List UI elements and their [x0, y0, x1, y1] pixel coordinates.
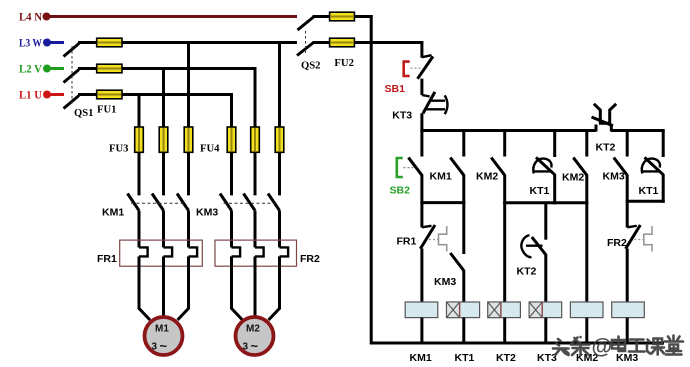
svg-text:KT1: KT1: [639, 185, 659, 197]
button SB2 blade: [408, 158, 422, 176]
wire bottom bus: [371, 342, 664, 345]
contact KM2 aux label (B3): [476, 171, 498, 183]
wire U phase bus: [122, 93, 233, 96]
contact KM1 aux label: [430, 171, 452, 183]
coil KM3 label: [616, 352, 638, 364]
thermal relay FR1 box: [120, 240, 203, 266]
node L2 V label: [19, 64, 43, 76]
coil KT2 with clutch square: [488, 302, 521, 318]
svg-text:SB1: SB1: [385, 83, 406, 95]
svg-text:FU2: FU2: [334, 57, 354, 69]
fuse FU2 pole N: [330, 12, 355, 21]
wire KT3 to control bus: [420, 113, 423, 132]
coil KT3 label: [537, 352, 557, 364]
wire branch4 lower: [230, 211, 233, 248]
svg-text:FR2: FR2: [300, 253, 320, 265]
wire coil KT3 to bottom bus: [544, 318, 547, 345]
svg-text:FR2: FR2: [607, 237, 627, 249]
thermal relay FR1 heater 3: [189, 247, 198, 256]
relay contact KT3 label: [392, 110, 412, 122]
wire branch B7 upper: [662, 131, 665, 158]
node L2 V terminal dot: [43, 65, 51, 73]
wire branch B4 upper: [553, 131, 556, 158]
switch QS2 blade pole W: [297, 43, 314, 56]
wire branch B3 to coil KT2: [503, 175, 506, 304]
switch QS1 blade pole U: [64, 96, 80, 109]
wire branch B4 to H2: [553, 174, 556, 204]
button SB1 actuator dotted link: [411, 67, 421, 69]
thermal relay FR1 label: [97, 253, 117, 265]
thermal relay FR2 label: [300, 253, 320, 265]
wire coil KM3 to bottom bus: [626, 318, 629, 345]
thermal relay FR2 heater 2: [255, 247, 264, 256]
wire coil KM1 to bottom bus: [420, 318, 423, 345]
button SB1 label: [385, 83, 406, 95]
thermal contact FR2 blade: [626, 225, 641, 249]
switch QS1 blade pole W: [64, 44, 80, 57]
svg-text:KT3: KT3: [392, 110, 412, 122]
wire motor branch 5 drop (V): [254, 69, 257, 196]
thermal relay FR2 box: [215, 240, 297, 266]
fuse FU1 label: [97, 104, 117, 116]
relay contact KT1 label (B4): [530, 185, 550, 197]
wire branch5 lower: [254, 211, 257, 248]
svg-text:FU4: FU4: [200, 143, 220, 155]
contact KM2 aux blade (B5): [573, 158, 587, 176]
wire coil KM2 to bottom bus: [585, 318, 588, 345]
coil KM1: [405, 302, 438, 318]
wire L2 stub: [49, 67, 64, 70]
node L1 U terminal dot: [43, 91, 51, 99]
wire junction H3 (B6-B7 link): [626, 200, 665, 203]
wire motor branch 2 drop (V): [162, 69, 165, 196]
wire branch B5 upper: [585, 131, 588, 157]
wire branch6 lower: [278, 211, 281, 248]
wire branch B6 upper: [626, 131, 629, 157]
relay contact KT1 label (B7): [639, 185, 659, 197]
thermal relay FR1 heater 2: [164, 247, 173, 256]
wire motor M1 lead right: [178, 256, 189, 320]
svg-text:@: @: [592, 336, 612, 359]
svg-text:KT1: KT1: [530, 185, 550, 197]
thermal contact FR2 dotted link: [634, 239, 643, 241]
node L3 W label: [19, 38, 42, 50]
button SB2 label: [390, 185, 411, 197]
thermal relay FR1 heater 1: [139, 247, 148, 256]
svg-text:~: ~: [251, 339, 259, 354]
fuse FU1 pole U: [97, 90, 122, 99]
relay contact KT1 delay mark (B4): [533, 159, 551, 174]
wire motor M1 lead mid: [162, 256, 165, 316]
button SB1 actuator: [404, 62, 410, 76]
wire motor branch 3 drop (W): [187, 43, 190, 196]
contactor KM3 label: [196, 207, 218, 219]
fuse FU3 pole 1: [135, 127, 144, 152]
svg-text:QS2: QS2: [301, 60, 321, 72]
switch QS2 blade pole N: [298, 17, 314, 30]
wire control feed vertical upper: [420, 43, 423, 58]
wire motor M1 lead left: [139, 256, 150, 320]
svg-text:SB2: SB2: [390, 185, 411, 197]
relay contact KT3 delay mark: [425, 95, 448, 114]
thermal contact FR1 element: [439, 226, 447, 252]
svg-text:KM2: KM2: [562, 172, 584, 184]
fuse FU2 pole W: [330, 38, 355, 47]
svg-text:KT2: KT2: [596, 142, 616, 154]
wire junction H1 (B1-B2 parallel link): [420, 201, 465, 204]
button SB2 actuator dotted link: [404, 167, 414, 169]
contactor KM3 main contact 3: [268, 194, 280, 211]
wire U phase to FU1: [78, 93, 97, 96]
fuse FU1 pole V: [97, 64, 122, 73]
relay contact KT3 NC delayed seat tick: [422, 95, 430, 96]
thermal relay FR2 heater 1: [232, 247, 241, 256]
wire branch B1 to coil KM1: [420, 249, 423, 304]
thermal contact FR1 label: [397, 236, 417, 248]
relay contact KT1 delayed NO blade (B7): [645, 157, 664, 174]
wire control bus left segment: [420, 129, 596, 132]
svg-text:3: 3: [243, 342, 249, 353]
svg-text:FR1: FR1: [397, 236, 417, 248]
contactor KM1 label: [102, 207, 124, 219]
wire N rail vertical: [370, 15, 373, 345]
svg-text:L2 V: L2 V: [19, 64, 43, 76]
fuse FU4 label: [200, 143, 220, 155]
fuse FU1 pole W: [97, 38, 122, 47]
wire motor branch 6 drop (W): [278, 43, 281, 196]
thermal contact FR2 seat tick: [627, 226, 637, 228]
relay contact KT2 delayed NO blade (B4b): [532, 237, 546, 255]
fuse FU4 pole 3: [275, 127, 284, 152]
coil KT1 label: [455, 352, 475, 364]
thermal contact FR1 dotted link: [429, 239, 438, 241]
svg-text:QS1: QS1: [74, 107, 94, 119]
wire W phase bus to QS2: [122, 41, 297, 44]
contact KM2 aux label (B5): [562, 172, 584, 184]
contact KM3 aux label: [434, 276, 456, 288]
wire motor M2 lead mid: [254, 256, 257, 316]
wire branch3 lower: [187, 211, 190, 248]
button SB2 actuator: [397, 158, 403, 177]
wire coil KT1 to bottom bus: [462, 318, 465, 345]
wire SB1 to KT3: [420, 79, 423, 95]
relay contact KT2 label (B4b): [517, 266, 537, 278]
wire branch B4b hang from H2: [544, 203, 547, 240]
wire FU2 top to N rail: [354, 15, 372, 18]
wire V phase to FU1: [78, 67, 97, 70]
relay contact KT2 delay mark (B4b): [521, 235, 542, 257]
wire branch B1 to FR1 contact: [420, 175, 423, 228]
svg-text:KT2: KT2: [517, 266, 537, 278]
wire branch B2 upper: [462, 131, 465, 157]
wire L4 neutral top line: [49, 15, 297, 18]
svg-text:KM3: KM3: [434, 276, 456, 288]
wire branch B2 middle: [462, 175, 465, 255]
node L3 W terminal dot: [43, 39, 51, 47]
svg-text:KM1: KM1: [430, 171, 452, 183]
relay contact KT2 in-bus label: [596, 142, 616, 154]
contactor KM3 main contact 2: [244, 194, 256, 211]
contactor KM3 linkage dashed: [224, 202, 276, 204]
wire branch B6 to coil KM3: [626, 249, 629, 304]
contactor KM1 main contact 3: [177, 194, 189, 211]
svg-text:L3 W: L3 W: [19, 38, 42, 50]
wire V phase bus: [122, 67, 257, 70]
svg-text:KT1: KT1: [455, 352, 475, 364]
button SB1 blade: [418, 56, 434, 78]
switch QS1 blade pole V: [64, 70, 80, 83]
wire branch2 lower: [162, 211, 165, 248]
contactor KM3 main contact 1: [220, 194, 232, 211]
wire junction H2 (B3-B4-B5 link): [503, 201, 588, 204]
wire branch B5 to coil KM2: [585, 175, 588, 304]
wire branch B6 middle: [626, 175, 629, 228]
coil KT3 with clutch square: [529, 302, 562, 318]
contactor KM1 linkage dashed: [131, 202, 184, 204]
svg-text:3: 3: [152, 342, 158, 353]
wire L1 stub: [49, 93, 64, 96]
wire branch1 lower: [138, 211, 141, 248]
thermal contact FR2 label: [607, 237, 627, 249]
fuse FU2 label: [334, 57, 354, 69]
svg-text:KT2: KT2: [496, 352, 516, 364]
fuse FU3 pole 3: [184, 127, 193, 152]
node L4 N terminal dot: [43, 13, 51, 21]
svg-text:L4 N: L4 N: [19, 12, 43, 24]
wire branch B4b to coil KT3: [544, 254, 547, 303]
thermal contact FR1 blade: [420, 225, 435, 249]
contact KM3 aux label (B6): [603, 171, 625, 183]
coil KM2: [570, 302, 603, 318]
thermal relay FR2 heater 3: [280, 247, 289, 256]
wire coil KT2 to bottom bus: [503, 318, 506, 345]
svg-text:M1: M1: [155, 324, 169, 335]
fuse FU3 pole 2: [159, 127, 168, 152]
switch QS2 label: [301, 60, 321, 72]
node L1 U label: [19, 90, 43, 102]
contact KM3 aux blade: [450, 253, 464, 271]
fuse FU4 pole 2: [251, 127, 260, 152]
relay contact KT1 delay mark (B7): [642, 159, 660, 174]
wire motor M2 lead right: [269, 256, 280, 320]
svg-text:KM1: KM1: [102, 207, 124, 219]
coil KT1 with clutch square: [447, 302, 480, 318]
switch QS1 linkage dotted: [71, 46, 73, 106]
coil KM1 label: [410, 352, 432, 364]
wire branch B7 to H3: [662, 174, 665, 203]
fuse FU4 pole 1: [227, 127, 236, 152]
motor M1: [145, 317, 183, 355]
wire W phase to FU1: [78, 41, 97, 44]
coil KM3: [612, 302, 645, 318]
motor M2: [236, 317, 274, 355]
wire FU2 bottom to control branch: [354, 41, 423, 44]
coil KT2 label: [496, 352, 516, 364]
svg-text:KM3: KM3: [603, 171, 625, 183]
wire QS2 to FU2 top: [313, 15, 330, 18]
wire motor M2 lead left: [232, 256, 243, 320]
svg-text:KT3: KT3: [537, 352, 557, 364]
svg-text:L1 U: L1 U: [19, 90, 43, 102]
svg-text:KM2: KM2: [476, 171, 498, 183]
wire motor branch 4 drop (U): [230, 95, 233, 196]
svg-text:KM3: KM3: [196, 207, 218, 219]
svg-text:M2: M2: [246, 324, 260, 335]
svg-text:~: ~: [160, 339, 168, 354]
wire branch B1 upper: [420, 131, 423, 157]
svg-text:KM3: KM3: [616, 352, 638, 364]
wire L3 stub: [49, 41, 64, 44]
svg-text:FU3: FU3: [109, 143, 129, 155]
coil KM2 label: [576, 352, 598, 364]
wire branch B2 to coil KT1: [462, 270, 465, 303]
switch QS1 label: [74, 107, 94, 119]
relay contact KT3 blade: [423, 92, 435, 114]
svg-text:KM1: KM1: [410, 352, 432, 364]
thermal contact FR2 element: [644, 226, 652, 252]
fuse FU3 label: [109, 143, 129, 155]
relay contact KT1 delayed NO blade (B4): [536, 157, 555, 174]
button SB1 seat tick: [422, 55, 432, 57]
svg-text:FR1: FR1: [97, 253, 117, 265]
contact KM2 aux blade (B3): [491, 158, 505, 176]
wire control bus right segment: [611, 129, 664, 132]
thermal contact FR1 seat tick: [422, 226, 432, 228]
contact KM1 aux blade: [450, 158, 464, 176]
wire QS2 to FU2 bottom: [313, 41, 330, 44]
watermark 头条@电工课堂: [553, 336, 683, 359]
node L4 N label: [19, 12, 43, 24]
wire motor branch 1 drop (U): [138, 95, 141, 196]
relay contact KT2 NC delayed in bus: [592, 104, 617, 132]
svg-text:FU1: FU1: [97, 104, 117, 116]
switch QS2 linkage dotted: [305, 31, 307, 53]
contact KM3 aux blade (B6): [614, 158, 628, 176]
contactor KM1 main contact 2: [152, 194, 164, 211]
wire branch B3 upper: [503, 131, 506, 157]
contactor KM1 main contact 1: [128, 194, 140, 211]
